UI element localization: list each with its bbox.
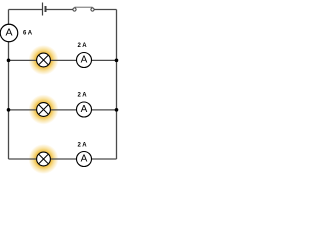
- svg-text:A: A: [5, 27, 12, 39]
- svg-text:A: A: [81, 104, 88, 115]
- svg-text:6 A: 6 A: [23, 30, 33, 36]
- svg-text:2 A: 2 A: [77, 143, 87, 149]
- svg-text:2 A: 2 A: [77, 93, 87, 99]
- svg-text:2 A: 2 A: [77, 43, 87, 49]
- svg-text:A: A: [81, 154, 88, 165]
- svg-text:A: A: [81, 55, 88, 66]
